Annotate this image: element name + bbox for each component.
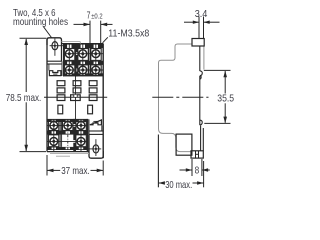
dim 8 line xyxy=(180,169,193,171)
mounting hole oval bottom xyxy=(93,145,99,153)
svg-text:11-M3.5x8: 11-M3.5x8 xyxy=(108,29,149,40)
white slots in upper bands xyxy=(67,45,98,76)
screw crosshair verticals upper xyxy=(68,44,70,76)
oval crosshair vertical xyxy=(54,39,56,56)
middle pin slots row B xyxy=(57,88,65,93)
arrow 8 left xyxy=(186,168,192,171)
screws lower xyxy=(50,122,85,146)
arrow 8 right xyxy=(202,168,208,171)
lower top rim band xyxy=(47,119,88,122)
dim 35.5 line xyxy=(224,71,226,94)
upper terminal block left edge xyxy=(63,44,65,77)
front view top edge xyxy=(62,43,104,45)
dim 78.5 extension bottom xyxy=(20,151,47,153)
arrow 7 right xyxy=(101,23,108,27)
svg-text:30 max.: 30 max. xyxy=(165,180,192,191)
front view bottom edge xyxy=(47,151,89,153)
dim 37 line xyxy=(47,169,60,171)
dim 78.5 extension top xyxy=(20,37,47,39)
dim 30 extension right xyxy=(203,161,205,187)
upper screw boxes row1 xyxy=(64,49,74,61)
lower DIN catch xyxy=(200,120,202,125)
white slots in lower bands xyxy=(52,119,84,149)
svg-text:37 max.: 37 max. xyxy=(61,166,89,177)
screw crosshair verticals lower xyxy=(53,119,55,151)
tab bottom-right mounting ear xyxy=(89,134,103,158)
front view body left edge xyxy=(46,38,48,152)
upper bottom rim band xyxy=(63,73,103,76)
svg-text:±0.2: ±0.2 xyxy=(91,12,102,21)
arrow 30 right xyxy=(197,181,204,185)
mounting hole oval top xyxy=(52,42,58,50)
dim 8 extensions xyxy=(191,159,193,176)
svg-text:78.5 max.: 78.5 max. xyxy=(6,93,42,104)
front view body right edge xyxy=(102,44,104,159)
svg-text:7: 7 xyxy=(87,11,91,22)
dim 37 extensions xyxy=(46,155,48,176)
upper block rim bands xyxy=(63,43,103,76)
dim 7 line xyxy=(74,23,91,25)
mounting plate rect side view xyxy=(192,39,204,47)
svg-text:mounting holes: mounting holes xyxy=(13,17,68,28)
dim 35.5 extension bottom xyxy=(204,122,230,124)
arrow 78.5 up xyxy=(24,38,28,45)
screw crosshair horizontal lower row2 xyxy=(47,140,88,142)
lower screw boxes row1 xyxy=(48,120,58,131)
dim 3.4 extensions xyxy=(198,17,200,39)
upper block separator col2/col3 xyxy=(88,48,90,74)
hold-down clip top xyxy=(49,71,61,76)
lower block separator col2/col3 with centerline xyxy=(73,119,76,152)
lower block rim bands xyxy=(47,119,88,150)
leader mounting holes xyxy=(43,27,52,39)
side view back edge dark xyxy=(199,46,201,71)
middle pin slots row C xyxy=(57,95,65,101)
dim 35.5 extension top xyxy=(204,69,231,71)
lower block right edge xyxy=(87,119,89,152)
tall slots row D xyxy=(58,105,63,114)
upper row divider band xyxy=(63,61,103,65)
side back lower edge xyxy=(202,128,204,151)
side lower housing block xyxy=(176,134,192,155)
side view front lower edge xyxy=(157,135,159,188)
dim 7 extensions xyxy=(89,21,91,44)
arrow 37 left xyxy=(47,169,54,173)
screw crosshair horizontal lower row1 xyxy=(47,124,88,126)
arrow 78.5 down xyxy=(24,145,28,152)
screw crosshair horizontal upper row1 xyxy=(64,53,104,55)
arrow 35.5 up xyxy=(223,71,227,78)
side view centerline xyxy=(152,96,208,98)
screw crosshair horizontal upper row2 xyxy=(64,69,104,71)
arrow 30 left xyxy=(158,181,165,185)
arrow 37 right xyxy=(97,169,104,173)
arrowheads xyxy=(24,21,227,185)
gray step top xyxy=(50,42,89,157)
lower row divider band xyxy=(47,131,88,135)
arrow 7 left xyxy=(84,23,91,27)
oval crosshair horizontal xyxy=(50,45,65,47)
hold-down clip bottom xyxy=(90,120,102,125)
arrow 35.5 down xyxy=(223,117,227,124)
upper block separator col1/col2 with centerline xyxy=(75,44,78,77)
dim 78.5 line xyxy=(25,39,27,92)
vertical centerline front view xyxy=(75,44,77,152)
leader 11-M3.5x8 xyxy=(103,37,108,43)
tab top-left mounting ear xyxy=(47,38,62,62)
upper DIN catch xyxy=(200,71,202,79)
upper top rim band xyxy=(63,43,103,48)
screws upper xyxy=(65,50,99,74)
dim 3.4 line xyxy=(184,21,199,23)
lower bottom rim band xyxy=(47,147,88,150)
bottom tab divider lines xyxy=(89,130,103,132)
svg-text:8: 8 xyxy=(195,165,200,176)
arrow 3.4 right xyxy=(204,21,210,24)
gray steps bottom xyxy=(50,153,70,155)
side view gray outline xyxy=(159,44,204,152)
tab divider lines xyxy=(47,60,62,62)
horizontal centerline front view xyxy=(44,96,107,98)
arrow 3.4 left xyxy=(193,21,199,24)
clip compartment walls xyxy=(48,64,50,71)
lower screw boxes row2 xyxy=(48,135,58,147)
middle pin slots row A xyxy=(57,81,97,114)
svg-text:3.4: 3.4 xyxy=(195,9,208,20)
svg-text:35.5: 35.5 xyxy=(217,93,234,104)
clip compartment lower right walls xyxy=(101,125,103,131)
lower block separator col1/col2 xyxy=(59,122,61,147)
dim 30 line xyxy=(158,182,164,184)
DIN hook cross-section xyxy=(191,151,203,158)
oval center dot xyxy=(54,45,56,47)
upper screw boxes row2 xyxy=(64,65,74,76)
